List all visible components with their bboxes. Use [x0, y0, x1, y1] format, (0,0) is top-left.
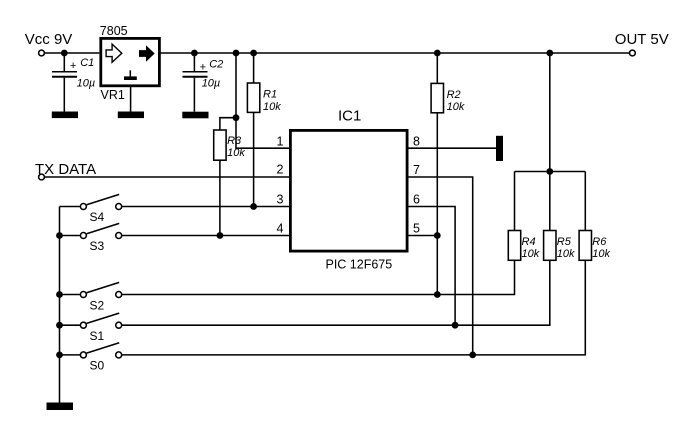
wire rail Vcc to VR1	[45, 52, 100, 54]
resistor R4	[508, 172, 520, 261]
wire pin5 line	[408, 235, 437, 237]
svg-text:S3: S3	[90, 239, 105, 253]
svg-text:10µ: 10µ	[77, 77, 96, 89]
node OUT terminal	[630, 50, 636, 56]
svg-text:+: +	[70, 60, 77, 72]
resistor R5	[544, 172, 556, 261]
svg-text:5: 5	[413, 222, 420, 236]
svg-text:R5: R5	[557, 236, 572, 248]
ground C1	[52, 112, 78, 119]
svg-text:R3: R3	[227, 135, 242, 147]
svg-text:8: 8	[413, 134, 420, 148]
wire pin4 line	[122, 235, 289, 237]
wire R bus riser	[549, 53, 551, 172]
svg-text:Vcc 9V: Vcc 9V	[25, 31, 73, 48]
regulator VR1 7805	[101, 38, 160, 85]
svg-text:S2: S2	[90, 299, 105, 313]
switch S4	[60, 194, 122, 209]
svg-text:TX DATA: TX DATA	[35, 161, 96, 178]
wire switch bus	[59, 207, 61, 403]
resistor R3	[214, 130, 226, 236]
switch S3	[60, 223, 122, 238]
switch S1	[60, 313, 122, 328]
junction dot R3 branch	[233, 114, 240, 121]
resistor R2	[431, 53, 443, 295]
resistor R1	[247, 53, 259, 207]
junction dot R2 to S2 line	[434, 291, 441, 298]
op IC1 box	[290, 130, 407, 251]
svg-text:2: 2	[277, 163, 284, 177]
junction dot R1 to pin3	[250, 203, 257, 210]
wire pin8 line	[408, 147, 496, 149]
wire S0 line to R6	[122, 260, 586, 355]
junction dot pin6 to S1 line	[452, 322, 459, 329]
ground pin8 bar	[496, 136, 503, 161]
svg-text:C2: C2	[209, 59, 223, 71]
wire rail VR1 to OUT	[161, 52, 630, 54]
svg-text:3: 3	[277, 193, 284, 207]
svg-text:R6: R6	[592, 236, 607, 248]
junction dot pin7 to S0 line	[469, 352, 476, 359]
ground VR1	[118, 112, 144, 119]
svg-text:10k: 10k	[447, 101, 465, 113]
node TX terminal	[39, 174, 45, 180]
resistor R6	[579, 172, 591, 261]
svg-text:7805: 7805	[100, 24, 128, 38]
junction dot C1 tap	[61, 50, 68, 57]
junction dot S3 bus	[56, 232, 63, 239]
wire R3 branch	[220, 118, 236, 130]
svg-text:S0: S0	[90, 359, 105, 373]
wire pin2 TX DATA	[45, 176, 290, 178]
junction dot S1 bus	[56, 322, 63, 329]
wire pin3 line	[122, 206, 289, 208]
junction dot R5 bus	[546, 168, 553, 175]
junction dot S0 bus	[56, 352, 63, 359]
wire S1 line to R5	[122, 260, 550, 325]
svg-text:10k: 10k	[557, 248, 575, 260]
svg-text:VR1: VR1	[101, 88, 125, 102]
capacitor C1	[52, 53, 77, 112]
junction dot R1 tap	[250, 50, 257, 57]
wire pin7 line	[408, 177, 473, 355]
wire S2 line to R4	[122, 260, 515, 294]
svg-text:C1: C1	[80, 57, 94, 69]
svg-text:IC1: IC1	[338, 108, 361, 125]
svg-text:7: 7	[413, 163, 420, 177]
junction dot R3 to pin4	[217, 232, 224, 239]
svg-text:4: 4	[277, 222, 284, 236]
switch S0	[60, 343, 122, 358]
svg-text:6: 6	[413, 193, 420, 207]
capacitor C2	[183, 53, 208, 112]
svg-text:10k: 10k	[522, 248, 540, 260]
svg-text:R1: R1	[263, 89, 277, 101]
wire pin6 line	[408, 207, 455, 326]
junction dot C2 tap	[191, 50, 198, 57]
node Vcc terminal	[39, 50, 45, 56]
switch S2	[60, 282, 122, 297]
ground C2	[182, 112, 208, 119]
wire R4-R6 top bus	[515, 171, 586, 173]
svg-text:10k: 10k	[263, 101, 281, 113]
svg-text:R2: R2	[447, 89, 461, 101]
svg-text:OUT 5V: OUT 5V	[615, 31, 669, 48]
svg-text:PIC 12F675: PIC 12F675	[326, 257, 393, 271]
svg-text:S4: S4	[90, 210, 105, 224]
ground main	[47, 403, 74, 411]
svg-text:+: +	[200, 61, 207, 73]
wire R3 riser to pin1	[236, 53, 289, 148]
svg-text:R4: R4	[522, 236, 536, 248]
svg-text:1: 1	[277, 135, 284, 149]
svg-text:10k: 10k	[227, 147, 245, 159]
svg-text:10k: 10k	[592, 248, 610, 260]
junction dot pin5	[434, 232, 441, 239]
junction dot riser rail	[546, 50, 553, 57]
svg-text:10µ: 10µ	[202, 78, 221, 90]
junction dot R3 riser tap	[233, 50, 240, 57]
junction dot R2 tap	[434, 50, 441, 57]
svg-text:S1: S1	[90, 329, 105, 343]
wire VR1 ground lead	[130, 86, 132, 112]
junction dot S2 bus	[56, 291, 63, 298]
